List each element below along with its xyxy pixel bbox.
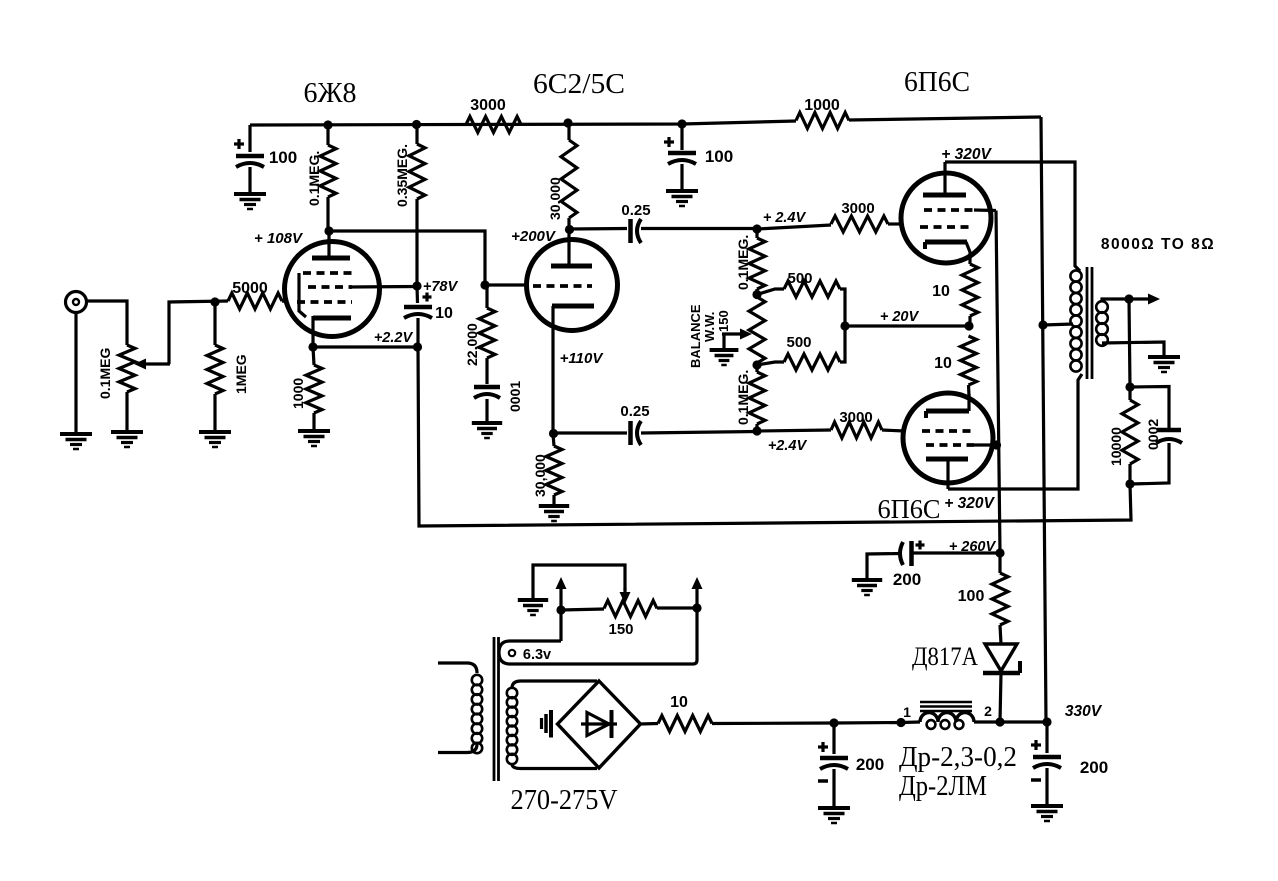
transformer T2 core <box>1087 267 1092 379</box>
ground - balance pot <box>710 350 739 365</box>
tube V2 cathode <box>552 306 594 434</box>
wire - V1 plate to V2 grid <box>329 231 485 285</box>
label 30,000 cathode <box>532 454 548 497</box>
capacitor 0002 feedback <box>1130 387 1182 485</box>
label W.W. <box>702 312 717 342</box>
tube V1 suppressor grid g3 <box>299 273 352 317</box>
resistor 22,000 feedback <box>479 286 495 384</box>
label tube 6П6С upper <box>904 67 970 98</box>
resistor 1000 B+ dropper <box>796 113 849 129</box>
tube V4 cathode <box>926 394 969 418</box>
label 200 filter 2 <box>1080 758 1108 777</box>
label 10000 <box>1108 427 1124 466</box>
node - top rail / C2 <box>677 119 686 128</box>
svg-text:5000: 5000 <box>232 280 268 297</box>
node - +200V plate node <box>565 225 574 234</box>
svg-text:+ 108V: + 108V <box>254 230 304 247</box>
resistor 10 filter <box>640 716 834 732</box>
wire - jack to volume pot <box>87 301 128 345</box>
node - 500s junction <box>840 321 849 330</box>
label +20V <box>880 309 920 325</box>
label 0.1MEG. lower <box>735 370 751 425</box>
rectifier bridge D1 <box>558 681 641 768</box>
wire - mains lead top <box>438 663 477 673</box>
svg-text:270-275V: 270-275V <box>511 784 618 816</box>
label +260V <box>949 539 997 555</box>
label tube 6C2/5C <box>533 69 625 100</box>
svg-text:1: 1 <box>903 704 911 720</box>
resistor 1000 V1 cathode <box>306 347 322 431</box>
tube V3 screen grid <box>924 208 996 212</box>
wire - lower coupling cap to node <box>641 432 757 434</box>
node - V1 plate +108V <box>324 226 333 235</box>
label 0.1MEG <box>97 348 113 399</box>
label BALANCE <box>688 304 703 368</box>
svg-text:150: 150 <box>716 310 731 332</box>
resistor 0.35MEG screen dropper <box>409 125 425 286</box>
node - output / feedback <box>1124 294 1133 303</box>
resistor 3000 lower grid <box>757 422 904 438</box>
choke Др-2,3-0,2 <box>901 713 1000 729</box>
tube V3 6П6С envelope <box>901 173 991 263</box>
transformer T1 HV secondary winding <box>507 688 517 764</box>
ground - 1MEG <box>199 432 231 447</box>
label 3000 upper <box>841 200 874 217</box>
svg-text:8000Ω TO 8Ω: 8000Ω TO 8Ω <box>1101 236 1215 253</box>
wire - screen supply line <box>996 211 1000 554</box>
tube V3 cathode <box>925 242 970 264</box>
resistor 0.1MEG lower grid leak <box>749 365 765 431</box>
transformer T2 secondary winding <box>1096 301 1108 346</box>
transformer T1 primary winding <box>472 675 482 753</box>
label C2 value 100 <box>705 147 733 166</box>
svg-text:10000: 10000 <box>1108 427 1124 466</box>
label choke type line1 <box>899 742 1017 773</box>
node - 330V <box>1042 717 1051 726</box>
node - choke pin 1 <box>896 718 905 727</box>
wire - coupling cap to +2.4V node <box>641 227 757 230</box>
label +200V <box>511 228 557 245</box>
svg-text:0.25: 0.25 <box>621 202 650 219</box>
resistor 0.1MEG upper grid leak <box>749 229 765 294</box>
label 1MEG <box>233 354 249 394</box>
transformer T2 primary winding <box>1070 270 1081 371</box>
svg-text:W.W.: W.W. <box>702 312 717 342</box>
node - heater left <box>556 605 565 614</box>
svg-text:6Ж8: 6Ж8 <box>304 78 357 109</box>
resistor 3000 decoupling <box>466 117 521 133</box>
wire - V1 screen to +78V node <box>350 285 417 289</box>
node - +2.2V cathode node <box>413 342 422 351</box>
node - +2.4V lower <box>752 426 761 435</box>
svg-text:500: 500 <box>786 334 811 351</box>
wire - output to feedback network <box>1129 299 1130 387</box>
svg-text:3000: 3000 <box>470 97 506 114</box>
svg-text:0002: 0002 <box>1145 419 1161 450</box>
node - primary center tap <box>1038 320 1047 329</box>
tube V4 6П6С envelope <box>903 393 993 483</box>
resistor 30,000 V2 cathode <box>546 434 562 506</box>
wiper arrow - volume pot <box>134 359 170 370</box>
svg-text:10: 10 <box>934 355 952 372</box>
label 200 screen <box>893 570 921 589</box>
node - choke pin 2 / zener <box>995 717 1004 726</box>
wire - rail cap1 to choke <box>834 721 901 725</box>
label +320V lower <box>944 495 995 512</box>
ground - hum pot <box>518 600 548 615</box>
wire - HV lead bottom <box>512 764 597 769</box>
node - top rail / 30,000 <box>563 118 572 127</box>
label 1000 <box>804 97 840 114</box>
svg-text:0.35MEG.: 0.35MEG. <box>394 144 410 207</box>
label 6.3v <box>523 647 551 663</box>
wiper arrow - balance pot <box>722 329 752 340</box>
svg-text:+110V: +110V <box>560 350 605 367</box>
svg-text:22,000: 22,000 <box>464 323 480 366</box>
wire - wiper to grid <box>169 301 228 364</box>
svg-text:10: 10 <box>670 694 688 711</box>
svg-text:500: 500 <box>787 270 812 287</box>
svg-text:10: 10 <box>435 305 453 322</box>
tube V1 control grid g1 <box>297 300 352 304</box>
svg-text:10: 10 <box>932 283 950 300</box>
wire - V2 cathode to lower coupling cap <box>553 431 627 434</box>
svg-text:6П6С: 6П6С <box>878 494 941 524</box>
tube V1 screen grid g2 <box>308 285 352 289</box>
ground - V1 cathode resistor <box>298 431 330 446</box>
ground - bridge negative <box>542 710 552 738</box>
potentiometer 150 hum balance <box>561 601 697 617</box>
svg-text:BALANCE: BALANCE <box>688 304 703 368</box>
resistor 100 screen feed <box>992 553 1008 644</box>
ground - volume pot <box>111 432 143 447</box>
heater arrow right <box>692 577 703 608</box>
label 0.25 lower <box>620 403 649 420</box>
capacitor 10uF screen-cathode <box>404 286 432 347</box>
svg-text:30,000: 30,000 <box>532 454 548 497</box>
heater arrow left <box>556 577 567 610</box>
node - V2 cathode <box>549 429 558 438</box>
label 3000 lower <box>839 409 872 426</box>
capacitor C2 100uF decoupling <box>664 124 696 191</box>
capacitor C1 100uF screen bypass <box>234 125 264 194</box>
potentiometer 0.1MEG volume <box>119 345 135 432</box>
ground - V2 cathode <box>539 506 569 521</box>
node - filter cap 1 <box>829 718 838 727</box>
label +108V <box>254 230 304 247</box>
svg-text:3000: 3000 <box>839 409 872 426</box>
resistor 5000 grid stopper <box>228 293 288 309</box>
svg-text:0.1MEG: 0.1MEG <box>97 348 113 399</box>
node - top rail / 0.35MEG <box>412 120 421 129</box>
svg-text:3000: 3000 <box>841 200 874 217</box>
svg-text:0.1MEG.: 0.1MEG. <box>306 151 322 206</box>
tube V1 plate <box>312 231 350 258</box>
wire - center tap <box>1043 324 1073 325</box>
choke core <box>920 702 972 711</box>
label choke pin 2 <box>984 703 992 719</box>
label choke pin 1 <box>903 704 911 720</box>
node - +78V screen node <box>412 281 421 290</box>
label +110V <box>560 350 605 367</box>
svg-text:6C2/5C: 6C2/5C <box>533 69 625 100</box>
node - heater right <box>692 603 701 612</box>
label 500 upper <box>787 270 812 287</box>
potentiometer 150 balance W.W. <box>749 297 765 363</box>
resistor 3000 upper grid <box>757 216 903 232</box>
svg-text:2: 2 <box>984 703 992 719</box>
wire - choke to 330V node <box>1000 720 1047 723</box>
resistor 10 lower cathode <box>961 336 977 396</box>
label 330V <box>1065 703 1103 720</box>
wire - jack ground lead <box>74 313 77 435</box>
zener diode Д817А <box>983 644 1020 722</box>
node - feedback bottom <box>1125 479 1134 488</box>
wire - V3 plate to transformer <box>945 162 1080 271</box>
node - +260V <box>995 548 1004 557</box>
label 22,000 <box>464 323 480 366</box>
svg-text:200: 200 <box>1080 758 1108 777</box>
resistor 1MEG grid leak <box>207 302 223 432</box>
svg-text:200: 200 <box>856 755 884 774</box>
resistor 30,000 plate load 6C2/5C <box>561 123 577 229</box>
wiper arrow - hum pot <box>533 565 631 604</box>
label 500 lower <box>786 334 811 351</box>
ground - filter cap 2 <box>1031 806 1063 821</box>
label +2.4V lower <box>768 438 808 454</box>
wire - +200V to coupling cap <box>569 227 627 231</box>
wire - mains lead bottom <box>438 744 477 753</box>
node - 1MEG top <box>210 297 219 306</box>
svg-text:1MEG: 1MEG <box>233 354 249 394</box>
label 10 lower <box>934 355 952 372</box>
wire - balance wiper to ground <box>722 334 725 350</box>
label +2.4V upper <box>763 210 807 226</box>
label 150 hum <box>608 621 633 638</box>
node - feedback top <box>1125 382 1134 391</box>
tube V2 plate <box>551 230 592 266</box>
label 10 upper <box>932 283 950 300</box>
label 0.1MEG. <box>306 151 322 206</box>
node - V4 screen <box>992 440 1001 449</box>
wire - HV lead top <box>512 681 597 688</box>
label tube 6П6С lower <box>878 494 941 524</box>
svg-text:100: 100 <box>705 147 733 166</box>
label 0.1MEG. upper <box>735 235 751 290</box>
resistor 10000 feedback <box>1122 387 1138 484</box>
label cap 10 <box>435 305 453 322</box>
label tube 6Ж8 <box>304 78 357 109</box>
tube V3 plate <box>923 162 966 195</box>
svg-text:200: 200 <box>893 570 921 589</box>
node - top rail / 0.1MEG <box>323 120 332 129</box>
svg-text:0.1MEG.: 0.1MEG. <box>735 370 751 425</box>
ground - secondary <box>1148 357 1180 372</box>
node - +2.4V upper <box>752 224 761 233</box>
label 5000 <box>232 280 268 297</box>
capacitor 200uF filter 2 <box>1031 722 1061 806</box>
wire - V4 plate to transformer <box>948 374 1082 489</box>
ground - input jack <box>60 434 92 449</box>
ground - screen filter cap <box>852 580 882 595</box>
capacitor 0001 <box>474 387 500 423</box>
svg-text:0001: 0001 <box>507 381 523 412</box>
svg-text:30,000: 30,000 <box>547 177 563 220</box>
svg-text:150: 150 <box>608 621 633 638</box>
label +78V <box>423 279 459 295</box>
label 200 filter 1 <box>856 755 884 774</box>
label 30,000 <box>547 177 563 220</box>
label 10 filter <box>670 694 688 711</box>
svg-text:6.3v: 6.3v <box>523 647 551 663</box>
capacitor 200uF screen filter <box>867 541 1000 581</box>
svg-text:100: 100 <box>958 588 985 605</box>
tube V4 control grid <box>922 429 972 433</box>
resistor 0.1MEG plate load 6Ж8 <box>320 125 336 231</box>
label 0.35MEG. <box>394 144 410 207</box>
transformer T1 heater winding 6.3V <box>499 610 697 664</box>
label 3000 <box>470 97 506 114</box>
tube V4 plate <box>926 459 968 489</box>
node - V2 grid <box>480 280 489 289</box>
node - upper divider <box>752 290 761 299</box>
svg-text:6П6С: 6П6С <box>904 67 970 98</box>
svg-text:+2.2V: +2.2V <box>374 330 414 346</box>
svg-text:Д817А: Д817А <box>912 642 978 671</box>
label +2.2V <box>374 330 414 346</box>
label 150 balance <box>716 310 731 332</box>
capacitor 0.25 upper coupling <box>631 219 642 243</box>
svg-text:+2.4V: +2.4V <box>768 438 808 454</box>
transformer T1 core <box>494 637 499 781</box>
ground - 0001 <box>472 423 502 438</box>
wire - feedback rail <box>418 347 1131 526</box>
svg-text:1000: 1000 <box>290 378 306 409</box>
input jack J1 <box>66 292 87 313</box>
tube V3 control grid <box>920 225 970 229</box>
wire - secondary top lead <box>1102 299 1129 302</box>
tube V1 cathode <box>313 316 351 347</box>
ground - C1 <box>234 194 266 209</box>
ground - C2 <box>666 191 698 206</box>
svg-text:+ 320V: + 320V <box>944 495 995 512</box>
capacitor 0.25 lower coupling <box>631 421 642 445</box>
label impedance 8000Ω TO 8Ω <box>1101 236 1215 253</box>
node - lower divider <box>752 360 761 369</box>
svg-text:1000: 1000 <box>804 97 840 114</box>
label Д817А <box>912 642 978 671</box>
tube V2 grid <box>533 284 592 288</box>
label 0.25 upper <box>621 202 650 219</box>
label 0002 <box>1145 419 1161 450</box>
tube V2 6C2/5C envelope <box>527 240 618 331</box>
wire - cathode to +2.2V node <box>313 345 417 348</box>
resistor 10 upper cathode <box>962 264 978 326</box>
wire - B+ top rail <box>250 117 1041 125</box>
svg-text:0.1MEG.: 0.1MEG. <box>735 235 751 290</box>
label 100 screen <box>958 588 985 605</box>
svg-text:+200V: +200V <box>511 228 557 245</box>
svg-text:+ 20V: + 20V <box>880 309 920 325</box>
resistor 500 lower <box>757 326 845 370</box>
ground - filter cap 1 <box>818 808 850 823</box>
label choke type line2 <box>899 771 987 802</box>
resistor 500 upper <box>757 281 845 326</box>
label 1000 cathode <box>290 378 306 409</box>
capacitor 200uF filter 1 <box>818 723 848 808</box>
label 0001 <box>507 381 523 412</box>
svg-text:0.25: 0.25 <box>620 403 649 420</box>
label 270-275V <box>511 784 618 816</box>
node - V1 cathode <box>308 342 317 351</box>
wire - B+ riser <box>1041 117 1046 722</box>
svg-text:Др-2ЛМ: Др-2ЛМ <box>899 771 987 802</box>
wire - +20V to cathodes <box>845 324 968 327</box>
node - +20V cathode junction <box>964 321 973 330</box>
output arrow <box>1129 294 1160 305</box>
tube V1 6Ж8 envelope <box>285 242 380 337</box>
label C1 value 100 <box>269 148 297 167</box>
svg-text:100: 100 <box>269 148 297 167</box>
svg-text:330V: 330V <box>1065 703 1103 720</box>
label +320V upper <box>941 146 992 163</box>
wire - V2 grid entry <box>485 283 527 286</box>
svg-text:+ 2.4V: + 2.4V <box>763 210 807 226</box>
svg-text:Др-2,3-0,2: Др-2,3-0,2 <box>899 742 1017 773</box>
tube V4 screen grid <box>926 443 996 447</box>
wire - secondary bottom lead <box>1102 342 1164 357</box>
